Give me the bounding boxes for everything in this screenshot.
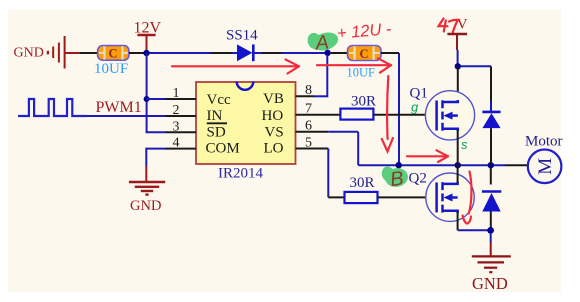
svg-text:C: C xyxy=(360,47,369,61)
pin stub 7 / HO wire to R1 xyxy=(296,114,341,116)
wire: phase node to Q2 drain xyxy=(457,165,459,183)
ground symbol (bottom) xyxy=(472,256,511,272)
node: Vcc junction dot xyxy=(144,96,150,102)
pin stub 1 xyxy=(147,98,196,100)
pin stub 6 / VS wire to node B xyxy=(296,132,359,165)
annotation red curved arrow (Q2 current) xyxy=(463,172,472,224)
ground symbol (COM) xyxy=(129,182,165,195)
pin stub 2 / PWM1 wire xyxy=(86,115,196,117)
svg-text:30R: 30R xyxy=(351,94,376,110)
svg-text:VB: VB xyxy=(263,91,284,107)
svg-text:LO: LO xyxy=(264,141,284,157)
wire: Q1 source to phase node xyxy=(457,130,459,165)
signal source PWM square wave symbol xyxy=(18,99,87,116)
svg-text:GND: GND xyxy=(14,46,44,61)
svg-text:IR2014: IR2014 xyxy=(218,165,264,181)
svg-text:PWM1: PWM1 xyxy=(96,99,142,116)
transistor Q2 (NMOS) xyxy=(426,173,474,221)
annotation red arrow 1 (12V rail current) xyxy=(172,60,299,74)
svg-text:s: s xyxy=(461,137,468,152)
diode D1 xyxy=(482,101,500,165)
motor M1 xyxy=(528,150,562,184)
wire: R1 to Q1 gate xyxy=(373,114,436,116)
wire: C1 to 12V node xyxy=(129,52,144,54)
svg-text:A: A xyxy=(313,31,330,54)
wire: 47V node to D1 branch xyxy=(461,66,492,101)
svg-text:IN: IN xyxy=(207,108,223,124)
svg-text:Vcc: Vcc xyxy=(207,92,231,108)
resistor R2 30R xyxy=(345,192,378,203)
svg-text:VS: VS xyxy=(265,125,284,141)
pin stub 4 / COM wire to ground xyxy=(146,148,196,182)
annotation red arrow down (C2 discharge) xyxy=(382,76,393,152)
node: Q1 source / Q2 drain junction dot xyxy=(455,162,461,168)
annotation red arrow 3 (phase current) xyxy=(407,150,448,162)
pin stub 5 / LO wire to R2 xyxy=(296,149,345,198)
transistor Q1 (NMOS) xyxy=(425,91,474,140)
svg-text:Q2: Q2 xyxy=(409,171,427,187)
annotation red arrow 2 (bootstrap current) xyxy=(317,58,391,72)
pin stub 3 xyxy=(146,131,196,133)
ground symbol GND left (battery-style power port) xyxy=(47,36,65,69)
svg-text:COM: COM xyxy=(206,141,240,157)
capacitor C1 (10UF) xyxy=(98,46,129,61)
pin stub 8 / VB wire to node A xyxy=(296,55,328,97)
wire: 12V node to diode SS14 xyxy=(150,52,238,54)
power port 47V xyxy=(439,17,468,64)
highlight blob node B xyxy=(380,165,409,188)
wire: GND symbol to capacitor C1 xyxy=(66,52,98,54)
wire: C2 right to node B vertical xyxy=(381,53,399,165)
svg-text:C: C xyxy=(109,47,118,61)
wire: 12V rail down to IC pins xyxy=(146,53,148,132)
diode D2 xyxy=(482,168,501,230)
node: D1/D2 junction dot xyxy=(488,162,494,168)
svg-text:10UF: 10UF xyxy=(347,66,376,80)
svg-text:Motor: Motor xyxy=(525,133,563,149)
svg-text:HO: HO xyxy=(262,108,284,124)
wire: R2 to Q2 gate xyxy=(378,196,437,198)
pin name SD with overline (pin 3) xyxy=(207,123,228,140)
svg-text:g: g xyxy=(411,100,419,115)
IC U1 IR2014 body xyxy=(196,82,296,165)
capacitor C2 (10UF bootstrap) xyxy=(348,46,382,61)
node: bottom rail junction dot xyxy=(487,227,494,234)
resistor R1 30R xyxy=(340,109,373,120)
wire: 47V node to Q1 drain xyxy=(457,66,459,100)
power port 12V xyxy=(134,19,162,51)
phase node wire (VS rail to motor) xyxy=(358,164,528,166)
wire: node A to capacitor C2 xyxy=(331,52,348,54)
svg-text:SS14: SS14 xyxy=(226,28,258,44)
svg-text:12V: 12V xyxy=(134,19,162,36)
svg-text:10UF: 10UF xyxy=(94,61,128,77)
svg-text:M: M xyxy=(535,158,556,175)
svg-text:GND: GND xyxy=(472,274,508,293)
wire: Q2 source to bottom rail xyxy=(458,212,488,231)
diode D3 SS14 xyxy=(237,44,253,61)
node B junction dot xyxy=(396,162,402,168)
svg-text:GND: GND xyxy=(130,198,161,214)
highlight blob node A xyxy=(306,30,340,54)
node A junction dot xyxy=(324,50,330,56)
svg-text:SD: SD xyxy=(207,124,226,140)
wire: SS14 to node A xyxy=(255,52,326,54)
svg-text:30R: 30R xyxy=(350,175,375,191)
node: 12V junction dot xyxy=(143,50,149,56)
wire: bottom rail to ground xyxy=(490,233,492,256)
node: 47V junction dot xyxy=(455,63,461,69)
